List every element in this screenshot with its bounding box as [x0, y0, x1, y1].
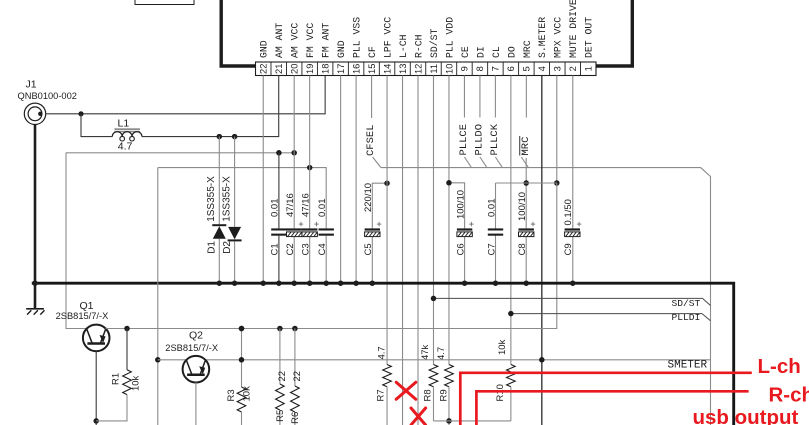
resistor R7 4.7 — [383, 365, 392, 387]
wire pin16 PLL VSS to bus — [355, 76, 357, 284]
svg-text:C4: C4 — [317, 243, 328, 255]
svg-text:SD/ST: SD/ST — [429, 28, 440, 58]
net SD/ST flag — [433, 298, 710, 309]
svg-text:C5: C5 — [363, 243, 374, 255]
wire pin7 CL stub + net label PLLCK — [494, 76, 496, 118]
node R5 top — [277, 326, 283, 332]
resistor R8 47k — [429, 365, 438, 387]
node bus D1 — [217, 280, 223, 286]
inductor L1 4.7 — [112, 117, 142, 152]
svg-text:L-CH: L-CH — [398, 34, 409, 58]
wire pin13 L-CH column — [402, 76, 404, 425]
svg-text:FM ANT: FM ANT — [321, 23, 332, 58]
svg-text:2: 2 — [568, 66, 578, 71]
op-amp U1 IC body outline (cut off at top) — [221, 0, 255, 66]
svg-text:1SS355-X: 1SS355-X — [206, 176, 217, 222]
node bus C5 — [370, 280, 376, 286]
svg-text:4: 4 — [537, 66, 547, 71]
wire C FM VCC rail y=168 — [158, 168, 326, 229]
node C1 top — [276, 150, 282, 156]
red cut X on R-CH wire — [411, 408, 426, 425]
wire pin3 down to Q1 rail — [106, 183, 557, 329]
svg-text:2SB815/7/-X: 2SB815/7/-X — [165, 343, 218, 353]
stub C7 line y=183 — [496, 182, 557, 184]
net SMETER flag — [205, 360, 710, 372]
node C8 top stub — [523, 180, 529, 186]
node R3 rail — [239, 326, 245, 332]
node Q1 base bottom — [93, 418, 99, 424]
node bus C1 — [276, 280, 282, 286]
IC pin row boxes pins 22..1 — [256, 62, 597, 76]
node R6 top — [292, 326, 298, 332]
svg-text:0.01: 0.01 — [486, 199, 497, 218]
svg-text:usb output: usb output — [693, 406, 799, 425]
svg-text:S.METER: S.METER — [537, 17, 548, 58]
node bus C6 — [462, 280, 468, 286]
wire R3 column — [241, 329, 243, 388]
svg-text:22: 22 — [292, 371, 303, 382]
resistor R1 10k — [126, 329, 128, 370]
wire pin22 GND to bus — [262, 76, 264, 284]
svg-text:R-CH: R-CH — [413, 34, 424, 58]
node pin3/C7 — [554, 180, 560, 186]
wire pin9 CE stub + net label PLLCE — [463, 76, 465, 118]
svg-text:R1: R1 — [110, 373, 121, 385]
svg-text:47/16: 47/16 — [285, 193, 296, 217]
svg-text:GND: GND — [259, 40, 270, 58]
node bus pin22 — [260, 280, 266, 286]
connector J1 QNB0100-002 — [18, 79, 77, 125]
svg-text:20: 20 — [289, 64, 299, 74]
svg-text:L1: L1 — [118, 117, 130, 129]
wire pin6 DO column down through PLLDI to R10 — [510, 76, 512, 314]
wire x158 FM VCC down — [157, 168, 159, 425]
svg-text:10k: 10k — [241, 386, 252, 402]
svg-text:SD/ST: SD/ST — [672, 298, 701, 309]
wire pin2 MUTE DRIVE column to C9 — [572, 76, 574, 229]
wire pin12 R-CH column — [417, 76, 419, 425]
svg-text:C8: C8 — [517, 243, 528, 255]
svg-text:13: 13 — [398, 64, 408, 74]
svg-text:PLLCK: PLLCK — [489, 123, 501, 155]
wire C1 column — [278, 153, 280, 229]
svg-text:10k: 10k — [497, 339, 508, 355]
svg-text:17: 17 — [336, 64, 346, 74]
thick ground lead from J1 down to bus and ground — [34, 125, 37, 308]
svg-text:18: 18 — [320, 64, 330, 74]
node bus J1 — [32, 280, 38, 286]
resistor R10 10k — [507, 365, 516, 387]
svg-text:R-ch: R-ch — [769, 384, 809, 407]
svg-text:3: 3 — [553, 66, 563, 71]
wire bottom R8-R10 — [433, 420, 510, 422]
node R9 bottom — [446, 418, 452, 424]
svg-text:DO: DO — [506, 46, 517, 58]
svg-text:47k: 47k — [420, 344, 431, 360]
node D1 tap — [217, 134, 223, 140]
svg-text:CE: CE — [460, 46, 471, 58]
svg-text:8: 8 — [475, 66, 485, 71]
svg-text:SMETER: SMETER — [668, 360, 708, 372]
node bus pin16 — [353, 280, 359, 286]
wire pin15 CF stub — [371, 76, 373, 119]
wire pin5 column to C8 — [525, 158, 527, 228]
wire pin8 DI stub + net label PLLDO — [479, 76, 481, 118]
capacitor C8 100/10 (electrolytic) — [517, 192, 535, 256]
node bus C4 — [323, 280, 329, 286]
capacitor C5 220/10 (electrolytic) — [363, 183, 381, 256]
svg-text:100/10: 100/10 — [455, 190, 466, 219]
node bus D2 — [232, 280, 238, 286]
svg-text:C2: C2 — [285, 243, 296, 255]
wire x66 down to Q1 — [66, 153, 87, 329]
node R3/Q2 rail — [239, 357, 245, 363]
svg-text:R5: R5 — [275, 410, 286, 422]
svg-text:10k: 10k — [131, 375, 142, 391]
resistor R5 22 — [279, 329, 281, 385]
svg-text:Q1: Q1 — [80, 300, 94, 312]
wire pin17 GND to bus — [340, 76, 342, 284]
svg-text:GND: GND — [336, 40, 347, 58]
svg-text:FM VCC: FM VCC — [305, 23, 316, 58]
wire C4 column lower — [325, 236, 327, 284]
resistor R9 4.7 — [445, 365, 454, 387]
capacitor C7 0.01 — [486, 199, 503, 256]
node bus C3 — [307, 280, 313, 286]
svg-text:R8: R8 — [422, 389, 433, 401]
svg-text:PLLDO: PLLDO — [474, 124, 486, 156]
svg-text:MRC: MRC — [520, 137, 532, 156]
node SMETER pin4 — [539, 357, 545, 363]
svg-text:MPX VCC: MPX VCC — [553, 17, 564, 58]
transistor Q2 2SB815/7/-X — [165, 329, 218, 382]
svg-text:5: 5 — [522, 66, 532, 71]
svg-text:R7: R7 — [375, 389, 386, 401]
svg-text:14: 14 — [382, 64, 392, 74]
svg-text:LPF VCC: LPF VCC — [382, 17, 393, 58]
svg-text:0.01: 0.01 — [270, 199, 281, 218]
svg-text:DET OUT: DET OUT — [584, 17, 595, 58]
svg-text:2SB815/7/-X: 2SB815/7/-X — [56, 311, 109, 321]
svg-text:22: 22 — [259, 64, 269, 74]
svg-text:DI: DI — [475, 46, 486, 58]
wire pin19 FM VCC column — [309, 76, 311, 229]
svg-text:Q2: Q2 — [189, 329, 203, 341]
svg-text:R3: R3 — [226, 389, 237, 401]
wire pin5 MRC stub + net label /MRC — [525, 76, 527, 118]
svg-text:MUTE DRIVE: MUTE DRIVE — [568, 0, 579, 58]
wire J1 to pin 18 FM ANT — [46, 76, 325, 114]
wire pin3 MPX VCC column — [556, 76, 558, 184]
svg-text:4.7: 4.7 — [118, 141, 133, 153]
wire Q2 base down — [195, 383, 197, 425]
wire pin10 PLL VDD column — [448, 76, 450, 365]
wire C5 lower — [371, 237, 373, 284]
bus line CFSEL to right side — [381, 168, 711, 425]
svg-text:1SS355-X: 1SS355-X — [221, 176, 232, 222]
diode D1 1SS355-X — [206, 137, 226, 284]
node bus C8 — [523, 280, 529, 286]
wire pin4 S.METER column black — [541, 76, 543, 425]
svg-text:L-ch: L-ch — [758, 355, 801, 378]
svg-text:1: 1 — [584, 66, 594, 71]
svg-text:16: 16 — [351, 64, 361, 74]
svg-text:11: 11 — [429, 64, 439, 74]
svg-text:0.1/50: 0.1/50 — [563, 199, 574, 225]
node D2 tap — [232, 134, 238, 140]
svg-text:22: 22 — [277, 371, 288, 382]
svg-text:10: 10 — [444, 64, 454, 74]
svg-text:220/10: 220/10 — [363, 183, 374, 212]
diode D2 1SS355-X — [221, 137, 241, 284]
node antenna junction — [78, 111, 83, 116]
svg-text:100/10: 100/10 — [517, 192, 528, 221]
stub C6 from pin10 — [449, 183, 465, 229]
connector box top-left (cut off) — [135, 0, 194, 5]
svg-text:47/16: 47/16 — [301, 193, 312, 217]
node C5/pin14 — [384, 180, 390, 186]
svg-text:C9: C9 — [563, 243, 574, 255]
node C2 top — [291, 150, 297, 156]
svg-text:MRC: MRC — [522, 40, 533, 58]
svg-text:AM VCC: AM VCC — [290, 23, 301, 58]
svg-text:21: 21 — [274, 64, 284, 74]
node bus pin17 — [338, 280, 344, 286]
svg-text:PLL VSS: PLL VSS — [352, 17, 363, 58]
capacitor C4 0.01 — [317, 199, 334, 256]
svg-text:AM ANT: AM ANT — [274, 23, 285, 58]
node SD/ST pin11 — [431, 296, 437, 302]
net PLLDI flag — [511, 312, 711, 323]
svg-text:C3: C3 — [301, 243, 312, 255]
capacitor C9 0.1/50 (electrolytic) — [563, 199, 581, 255]
wire B AM VCC rail y=153 — [66, 152, 294, 154]
wire Q1 base down — [95, 351, 97, 425]
svg-text:9: 9 — [460, 66, 470, 71]
wire to Q2 collector — [158, 359, 187, 361]
resistor R3 10k — [237, 387, 246, 412]
node bus C2 — [291, 280, 297, 286]
svg-text:6: 6 — [506, 66, 516, 71]
red cut X on L-CH wire — [396, 382, 416, 399]
node PLLDI R10 — [508, 311, 514, 317]
svg-text:D1: D1 — [207, 241, 218, 254]
node pin10/C6 — [446, 180, 452, 186]
svg-text:C7: C7 — [486, 243, 497, 255]
svg-text:4.7: 4.7 — [436, 347, 447, 360]
wire junction down to L1 — [81, 114, 112, 137]
svg-text:R9: R9 — [438, 389, 449, 401]
node Q2 feed — [155, 357, 161, 363]
wire C5 to pin14 stub — [372, 183, 387, 228]
svg-text:15: 15 — [367, 64, 377, 74]
svg-text:12: 12 — [413, 64, 423, 74]
capacitor C1 0.01 — [270, 199, 287, 256]
svg-text:D2: D2 — [222, 241, 233, 254]
svg-text:PLLDI: PLLDI — [672, 312, 701, 323]
svg-text:CL: CL — [491, 46, 502, 58]
node bus C7 — [493, 280, 499, 286]
wire L1 to pin 21 AM ANT — [142, 76, 279, 137]
node R1 top — [124, 326, 130, 332]
node bus C9 — [570, 280, 576, 286]
svg-text:C6: C6 — [455, 243, 466, 255]
svg-text:PLLCE: PLLCE — [458, 124, 470, 156]
wire Q1 emitter rail y=328.5 — [106, 328, 557, 330]
resistor R6 22 — [294, 329, 296, 387]
node Q2/R3 emitter rail — [239, 326, 245, 332]
red wire L-ch tap — [460, 373, 752, 425]
svg-text:C1: C1 — [270, 243, 281, 255]
capacitor C3 47/16 (electrolytic) — [301, 193, 319, 255]
svg-text:J1: J1 — [26, 79, 37, 91]
wire pin14 LPF VCC column down to R7 — [386, 76, 388, 365]
svg-text:R10: R10 — [495, 384, 506, 401]
svg-text:4.7: 4.7 — [376, 346, 387, 359]
svg-text:0.01: 0.01 — [317, 199, 328, 218]
wire pin20 AM VCC column — [293, 76, 295, 229]
capacitor C2 47/16 (electrolytic) — [285, 193, 303, 255]
svg-text:PLL VDD: PLL VDD — [444, 17, 455, 58]
svg-text:19: 19 — [305, 64, 315, 74]
svg-text:CFSEL: CFSEL — [365, 124, 377, 156]
transistor Q1 2SB815/7/-X — [56, 300, 110, 351]
svg-text:QNB0100-002: QNB0100-002 — [18, 91, 77, 101]
node C3 top — [307, 165, 313, 171]
svg-text:R6: R6 — [290, 412, 301, 424]
ground bus thick — [32, 283, 734, 425]
capacitor C6 100/10 (electrolytic) — [455, 190, 473, 256]
svg-text:7: 7 — [491, 66, 501, 71]
red wire R-ch tap — [476, 391, 748, 425]
ground — [26, 309, 44, 315]
wire pin11 SD/ST column — [432, 76, 434, 299]
svg-text:CF: CF — [367, 46, 378, 58]
